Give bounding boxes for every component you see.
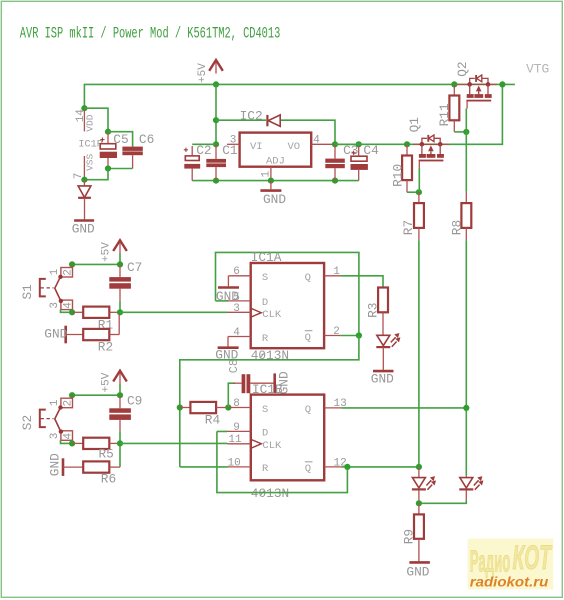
capacitor C6 <box>122 147 142 151</box>
pin 10 R <box>227 466 251 468</box>
svg-text:+5V: +5V <box>100 372 112 392</box>
wire S2 top rail <box>72 384 120 395</box>
regulator IC2 box <box>240 133 312 167</box>
wire pin9 feedback loop <box>217 431 348 492</box>
svg-text:GND: GND <box>47 453 62 476</box>
switch S2 <box>40 395 75 440</box>
resistor R10 <box>406 144 408 155</box>
svg-text:C1: C1 <box>222 143 238 158</box>
svg-text:IC1B: IC1B <box>252 382 283 397</box>
ground at pin4 <box>218 346 239 349</box>
pin 4 VO <box>311 143 335 145</box>
pin 2 Qn <box>324 335 340 337</box>
LED D2 <box>376 333 400 347</box>
svg-text:3: 3 <box>49 302 61 309</box>
pin 5 D <box>216 300 229 302</box>
node +5V junction <box>213 81 219 87</box>
flipflop IC1B box <box>251 395 324 481</box>
node S2 pin4 <box>69 440 75 446</box>
pin 9 D <box>226 430 251 432</box>
wire IC1A top feedback rail <box>216 252 359 335</box>
wire S1 bottom to R1 <box>61 310 73 313</box>
svg-text:IC2: IC2 <box>240 109 263 124</box>
resistor R1 <box>72 311 83 313</box>
node CLK1 <box>117 309 123 315</box>
wire S1 top rail <box>72 254 120 265</box>
wire gate node down to R8 <box>465 132 467 192</box>
svg-text:IC1A: IC1A <box>251 250 282 265</box>
wire pin10 to low rail <box>180 466 228 468</box>
svg-text:R: R <box>262 463 269 475</box>
svg-text:R11: R11 <box>437 103 452 126</box>
svg-text:1: 1 <box>49 399 61 406</box>
resistor R4 <box>180 407 191 409</box>
svg-text:C7: C7 <box>127 260 142 275</box>
pin 3 CLK <box>228 311 251 313</box>
node adj rail left <box>213 178 219 184</box>
pin 1 ADJ <box>270 167 272 181</box>
ground below R9 <box>409 561 430 564</box>
wire C6 top branch <box>108 132 133 147</box>
svg-text:ADJ: ADJ <box>266 156 285 168</box>
node S1 pin2 <box>69 261 75 267</box>
node adj rail right <box>332 178 338 184</box>
svg-text:D: D <box>262 428 268 440</box>
svg-text:VSS: VSS <box>85 153 96 170</box>
svg-text:4013N: 4013N <box>251 348 289 363</box>
node S2 pin8 <box>225 404 231 410</box>
pin 4 R <box>228 336 251 338</box>
pin IC1P VDD 14 <box>83 108 85 131</box>
svg-text:GND: GND <box>406 565 429 580</box>
pin 6 S <box>228 275 250 277</box>
svg-text:11: 11 <box>228 434 242 446</box>
svg-text:D: D <box>262 297 268 309</box>
node C7 top <box>117 261 123 267</box>
resistor R2 <box>66 334 84 336</box>
capacitor C8 <box>233 382 242 384</box>
svg-text:IC1P: IC1P <box>78 139 102 150</box>
wire R8 down to LED2 <box>465 240 467 475</box>
wire VO rail to Q1 <box>335 84 502 144</box>
svg-text:2: 2 <box>63 269 75 276</box>
svg-text:R5: R5 <box>99 447 114 462</box>
svg-text:C8: C8 <box>227 359 241 373</box>
node R7 top / Q1 gate <box>416 189 422 195</box>
node VSS junction <box>81 177 87 183</box>
wire C6 bottom to C5 bottom <box>108 168 133 170</box>
svg-text:C2: C2 <box>196 143 211 158</box>
node C5 top <box>105 129 111 135</box>
svg-text:10: 10 <box>228 457 241 469</box>
svg-text:Q1: Q1 <box>407 117 422 133</box>
svg-text:+5V: +5V <box>197 63 209 83</box>
svg-text:C6: C6 <box>139 132 154 147</box>
svg-text:R3: R3 <box>366 303 381 318</box>
svg-text:8: 8 <box>233 398 240 410</box>
node VO <box>332 141 338 147</box>
svg-text:radiokot.ru: radiokot.ru <box>470 573 549 589</box>
capacitor C1 <box>215 144 217 159</box>
ground below D1 <box>74 219 94 222</box>
pin 3 VI <box>227 143 240 145</box>
switch S1 <box>40 264 75 309</box>
svg-text:R10: R10 <box>391 164 406 187</box>
wire Q1 gate down <box>418 168 420 192</box>
wire diode branch <box>216 119 266 121</box>
node QB R8 <box>463 405 469 411</box>
wire +5V down to regulator input <box>215 84 217 144</box>
svg-text:2: 2 <box>333 326 340 338</box>
pin 1 Q <box>324 275 340 277</box>
svg-text:CLK: CLK <box>262 309 282 321</box>
svg-text:C9: C9 <box>127 393 142 408</box>
pin 11 CLK <box>228 443 251 445</box>
pin 13 Q <box>324 407 341 409</box>
wire adj gnd rail <box>192 180 359 182</box>
transistor Q1 <box>413 135 449 168</box>
ground below LED D2 <box>373 370 394 373</box>
svg-text:3: 3 <box>49 433 61 440</box>
resistor R8 <box>465 192 467 203</box>
svg-text:S1: S1 <box>20 284 35 300</box>
svg-text:3: 3 <box>233 303 240 315</box>
node VI <box>213 141 219 147</box>
ground below ADJ <box>270 181 272 190</box>
svg-text:4: 4 <box>63 433 75 440</box>
svg-text:R9: R9 <box>402 529 417 544</box>
svg-text:1: 1 <box>333 266 340 278</box>
wire LED cathodes join <box>419 501 466 504</box>
flipflop IC1A box <box>251 263 324 348</box>
wire Qn1B right <box>342 466 419 468</box>
svg-text:GND: GND <box>72 222 95 237</box>
svg-text:R7: R7 <box>401 220 416 235</box>
node adj rail mid <box>268 178 274 184</box>
node CLK2 <box>117 440 123 446</box>
node diode branch <box>213 117 219 123</box>
svg-text:R4: R4 <box>205 412 221 427</box>
supply +5V arrow P3 <box>113 371 127 382</box>
wire CLK2 to IC1B <box>120 442 228 444</box>
svg-text:VTG: VTG <box>526 61 549 76</box>
pin IC1P VSS 7 <box>83 156 85 180</box>
svg-text:1: 1 <box>260 171 272 178</box>
svg-text:C4: C4 <box>363 143 379 158</box>
svg-text:Q: Q <box>305 404 311 416</box>
wire pin8 to C8 <box>228 383 235 407</box>
pin 8 S <box>228 407 251 409</box>
svg-text:R2: R2 <box>98 339 113 354</box>
resistor R3 <box>378 288 388 313</box>
node QnB feedback <box>344 464 350 470</box>
resistor R11 <box>453 84 455 95</box>
svg-text:R: R <box>262 333 269 345</box>
supply +5V arrow P2 <box>113 240 127 251</box>
capacitor C2 <box>192 143 216 145</box>
svg-text:9: 9 <box>233 422 240 434</box>
resistor R9 <box>418 503 420 514</box>
svg-text:Q: Q <box>305 272 311 284</box>
diode across IC2 <box>268 115 280 126</box>
svg-text:S: S <box>262 272 268 284</box>
node C5 bottom <box>105 165 111 171</box>
node R11 top <box>451 81 457 87</box>
wire Qn to node <box>340 335 359 337</box>
diode D1 to gnd <box>83 180 85 186</box>
svg-text:4: 4 <box>63 302 75 309</box>
watermark background <box>468 539 554 590</box>
resistor R6 <box>63 466 83 468</box>
svg-text:6: 6 <box>233 266 240 278</box>
wire VDD to caps <box>84 108 108 132</box>
svg-text:VO: VO <box>288 141 301 153</box>
wire CLK1 to IC1A <box>120 311 228 313</box>
wire QnA down to low rail <box>180 336 359 467</box>
wire +5V rail <box>84 84 515 108</box>
pin 12 Qn <box>324 466 341 468</box>
wire Q1B to R8 line <box>342 407 467 409</box>
node +5V Q2 right <box>499 81 505 87</box>
ground at pin6 <box>218 286 239 289</box>
svg-text:GND: GND <box>371 372 394 387</box>
wire R7 down to LED1 <box>418 240 420 467</box>
wire QnA rail to R4 <box>177 404 183 410</box>
svg-text:R8: R8 <box>450 220 465 235</box>
svg-text:Q: Q <box>305 463 311 475</box>
svg-text:R6: R6 <box>101 472 116 487</box>
ground right of C8 <box>273 373 276 393</box>
node S1 pin4 <box>69 309 75 315</box>
ground left of R2 <box>64 326 67 344</box>
svg-text:1: 1 <box>49 268 61 275</box>
svg-text:GND: GND <box>263 192 286 207</box>
wire down to VSS node <box>84 169 108 180</box>
svg-text:Q2: Q2 <box>455 61 470 76</box>
node R10 top <box>404 141 410 147</box>
node LED1 top <box>416 464 422 470</box>
capacitor C5 <box>107 132 109 144</box>
node QnA <box>356 332 362 338</box>
svg-text:4: 4 <box>233 327 240 339</box>
resistor R7 <box>418 192 420 203</box>
LED D4 <box>459 476 483 502</box>
svg-text:S: S <box>262 404 268 416</box>
capacitor C3 <box>334 144 336 158</box>
svg-text:S2: S2 <box>20 415 35 430</box>
capacitor C9 <box>119 395 121 408</box>
capacitor C4 <box>335 143 359 145</box>
svg-text:4: 4 <box>313 134 320 146</box>
capacitor C7 <box>119 264 121 277</box>
ground left of R6 <box>62 458 65 476</box>
node C9 top <box>117 392 123 398</box>
svg-text:+5V: +5V <box>100 242 112 262</box>
resistor R5 <box>72 442 83 444</box>
wire S2 bottom to R5 <box>61 440 73 443</box>
svg-text:Q: Q <box>305 332 311 344</box>
svg-text:GND: GND <box>44 327 67 342</box>
svg-text:C5: C5 <box>113 132 128 147</box>
transistor Q2 <box>457 75 497 109</box>
svg-text:AVR ISP mkII / Power Mod / K56: AVR ISP mkII / Power Mod / K561TM2, CD40… <box>20 25 281 43</box>
wire Q2 gate lead <box>465 109 467 132</box>
svg-text:CLK: CLK <box>262 440 282 452</box>
svg-text:2: 2 <box>63 400 75 407</box>
node VDD junction <box>81 105 87 111</box>
wire Q1A to R3 <box>340 276 383 288</box>
svg-text:VI: VI <box>250 141 263 153</box>
svg-text:КОТ: КОТ <box>513 539 553 577</box>
LED D3 <box>412 467 436 503</box>
supply +5V arrow P1 <box>209 60 223 71</box>
svg-text:VDD: VDD <box>85 114 96 131</box>
node S2 pin2 <box>69 392 75 398</box>
node R9 top <box>416 500 422 506</box>
node Q2 gate / R8 <box>463 129 469 135</box>
